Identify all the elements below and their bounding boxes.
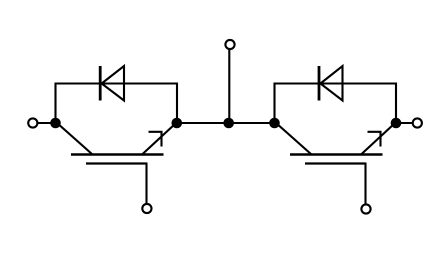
- diode D2 triangle: [320, 66, 342, 101]
- wire AC stem up: [228, 49, 230, 123]
- wire diode D2 top rail: [274, 82, 397, 84]
- transistor Q2 collector lead: [276, 123, 312, 155]
- wire node C2 up to diode rail: [273, 83, 275, 124]
- transistor Q2 gate bar: [305, 162, 366, 164]
- transistor Q2 emitter lead: [361, 123, 396, 155]
- node C2 junction dot: [269, 118, 280, 129]
- terminal 1 (collector C1): [28, 118, 37, 127]
- wire terminal1 to node C1: [37, 122, 56, 124]
- node E1 junction dot: [172, 118, 183, 129]
- node C1 junction dot: [50, 118, 61, 129]
- transistor Q2 body bar: [290, 153, 383, 155]
- transistor Q2 emitter arrow: [368, 132, 381, 147]
- transistor Q1 gate bar: [86, 162, 147, 164]
- wire rail down to node E1: [176, 83, 178, 124]
- terminal G1 (gate 1): [142, 204, 151, 213]
- wire node C1 up to diode rail: [54, 83, 56, 124]
- terminal G2 (gate 2): [361, 204, 370, 213]
- node E2 junction dot: [391, 118, 402, 129]
- wire diode D1 top rail: [55, 82, 178, 84]
- diode D1 cathode bar: [99, 66, 102, 101]
- transistor Q1 body bar: [71, 153, 164, 155]
- terminal 2 (AC output): [225, 40, 234, 49]
- wire Q1 gate lead down: [145, 163, 147, 205]
- wire node E2 to terminal 3: [396, 122, 413, 124]
- transistor Q1 collector lead: [57, 123, 93, 155]
- node AC junction dot: [223, 118, 234, 129]
- wire rail down to node E2: [395, 83, 397, 124]
- diode D1 triangle: [102, 66, 124, 101]
- diode D2 cathode bar: [318, 66, 321, 101]
- terminal 3 (emitter E2): [413, 118, 422, 127]
- transistor Q1 emitter arrow: [149, 132, 162, 147]
- transistor Q1 emitter lead: [142, 123, 177, 155]
- wire AC output bus: [177, 122, 275, 124]
- wire Q2 gate lead down: [364, 163, 366, 205]
